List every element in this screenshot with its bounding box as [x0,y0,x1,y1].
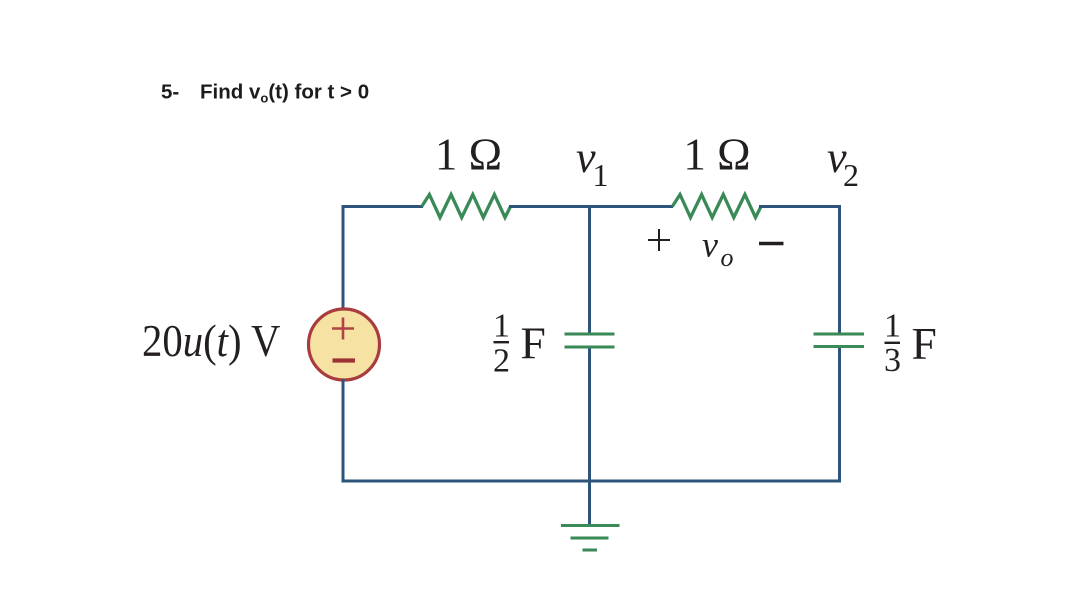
svg-text:vo: vo [702,225,733,273]
wire: top-right horizontal segment [759,205,841,208]
- terminal inside source [333,358,356,362]
wire: bottom horizontal [342,480,842,483]
wire: left vertical upper (to source) [342,205,345,310]
capacitor C2 (1/3 F) plates [814,334,865,347]
svg-text:Find vo(t) for t > 0: Find vo(t) for t > 0 [200,81,369,106]
svg-text:1 Ω: 1 Ω [435,130,502,180]
svg-text:1: 1 [884,308,901,345]
polarity - sign for vo [759,242,784,245]
wire: left vertical lower (source to bottom) [342,379,345,483]
svg-text:F: F [521,318,546,369]
voltage source VS 20u(t) V [309,309,380,380]
svg-text:2: 2 [493,343,510,380]
ground symbol [561,526,620,551]
wire: middle vertical upper (v1 to C1) [588,205,591,333]
wire: right vertical lower (C2 to bottom) [838,348,841,483]
resistor R1 (1 ohm, top-left) [422,195,511,218]
wire: middle vertical lower (C1 through bottom to ground) [588,349,591,526]
svg-text:v1: v1 [576,133,609,193]
svg-text:F: F [912,318,937,369]
value label 1/3 F for C2 [884,308,937,380]
svg-text:1: 1 [493,308,510,345]
value label 1/2 F for C1 [493,308,546,380]
wire: right vertical upper (v2 to C2) [838,205,841,333]
resistor R2 (1 ohm, top-right) [672,195,761,218]
svg-text:20u(t) V: 20u(t) V [142,317,280,366]
+ terminal inside source [332,318,354,340]
svg-text:5-: 5- [161,81,179,104]
polarity + sign for vo [648,229,670,251]
capacitor C1 (1/2 F) plates [565,334,615,347]
svg-text:3: 3 [884,342,901,379]
wire: top-left horizontal segment [342,205,424,208]
svg-text:v2: v2 [827,133,859,193]
svg-text:1 Ω: 1 Ω [683,130,750,180]
wire: top-middle horizontal segment [509,205,673,208]
title: 5- Find vo(t) for t > 0 [161,81,369,106]
